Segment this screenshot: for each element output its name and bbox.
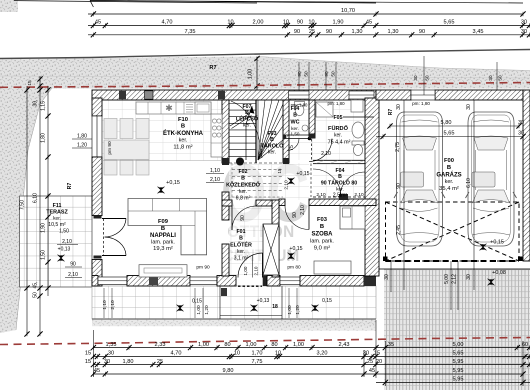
- svg-text:4,70: 4,70: [162, 20, 173, 26]
- svg-text:F00: F00: [444, 158, 454, 164]
- garage vertical ext line left: [403, 100, 405, 290]
- svg-text:F05: F05: [334, 115, 343, 121]
- kitchen level marker: [158, 187, 165, 194]
- szoba level marker: [288, 253, 295, 260]
- svg-text:30: 30: [518, 120, 524, 126]
- shaft bottom dark block: [265, 270, 273, 275]
- garage inner dim 5,80: [390, 125, 519, 127]
- top wall window WC: [289, 91, 310, 99]
- bath shower corner: [316, 102, 333, 117]
- svg-text:9,0 m²: 9,0 m²: [314, 246, 330, 252]
- svg-text:F11: F11: [53, 203, 62, 209]
- svg-text:ker.: ker.: [53, 216, 61, 222]
- svg-text:R7: R7: [67, 183, 73, 190]
- dining table: [104, 140, 149, 160]
- svg-text:ker.: ker.: [268, 150, 276, 156]
- svg-text:ker.: ker.: [237, 249, 245, 255]
- svg-text:35: 35: [388, 342, 394, 348]
- left dim chain inner: [47, 86, 49, 296]
- svg-text:2,10: 2,10: [300, 205, 306, 215]
- staircase winder radial treads: [257, 100, 259, 160]
- dimension row 1 (10,70): [88, 13, 523, 15]
- svg-text:15: 15: [277, 168, 282, 173]
- svg-text:45,: 45,: [33, 282, 39, 289]
- property boundary red dashed bottom: [0, 338, 530, 345]
- svg-text:1,00: 1,00: [243, 266, 248, 275]
- svg-text:ker.: ker.: [179, 138, 188, 144]
- svg-text:45: 45: [94, 368, 100, 374]
- svg-text:90: 90: [297, 71, 302, 77]
- svg-text:5,95: 5,95: [453, 377, 464, 383]
- svg-text:B: B: [447, 165, 451, 171]
- top wall post P2: [145, 91, 154, 99]
- svg-text:3,45: 3,45: [473, 29, 484, 35]
- svg-text:2,00: 2,00: [253, 20, 264, 26]
- svg-text:1,15: 1,15: [41, 101, 47, 111]
- watermark OTTHON: [227, 222, 294, 241]
- svg-text:30: 30: [466, 274, 472, 280]
- svg-text:R7: R7: [209, 65, 216, 71]
- house left exterior wall upper: [92, 98, 102, 116]
- svg-text:30,: 30,: [33, 100, 39, 107]
- terrace level marker: [58, 255, 65, 262]
- svg-text:5,00: 5,00: [444, 274, 450, 284]
- svg-text:90: 90: [297, 20, 303, 26]
- szoba top wall stub left: [279, 199, 285, 206]
- svg-text:pm 90: pm 90: [107, 141, 113, 155]
- door post: [263, 276, 269, 287]
- dining chairs top row: [104, 119, 117, 139]
- left dim chain mid: [39, 76, 41, 334]
- svg-text:5,95: 5,95: [453, 368, 464, 374]
- svg-text:30: 30: [384, 274, 390, 280]
- svg-text:R7: R7: [388, 109, 394, 116]
- svg-text:2,10: 2,10: [110, 300, 116, 310]
- garage door corner stub left: [383, 257, 388, 262]
- svg-text:1,00: 1,00: [248, 69, 254, 80]
- svg-text:5,00: 5,00: [453, 342, 464, 348]
- bottom dim row E garage: [376, 382, 530, 384]
- storage door arc right: [340, 172, 365, 197]
- svg-text:+0,13: +0,13: [58, 247, 71, 253]
- dining chairs bottom row: [104, 160, 117, 175]
- car 1 in garage: [394, 112, 445, 246]
- svg-text:pm: 1,80: pm: 1,80: [327, 101, 345, 106]
- svg-text:B: B: [270, 137, 274, 143]
- wall eloter-szoba vertical: [272, 200, 279, 277]
- svg-text:15: 15: [27, 80, 33, 86]
- dimension row 3 (7,35 ...): [88, 34, 530, 36]
- wall kozlekedo-eloter: [222, 200, 232, 206]
- svg-text:+0,15: +0,15: [289, 246, 302, 252]
- kitchen floor faint tiles: [102, 100, 222, 161]
- svg-text:ker.: ker.: [334, 133, 342, 139]
- paving dim verticals: [103, 288, 105, 318]
- top wall window bath: [349, 91, 374, 99]
- svg-text:ker.: ker.: [445, 179, 454, 185]
- bottom wall pier 3: [300, 276, 364, 287]
- bath washing machine: [351, 100, 363, 112]
- top wall post 2: [218, 91, 225, 99]
- garage door heavy dashed line: [386, 260, 520, 262]
- svg-text:15: 15: [85, 351, 91, 357]
- svg-text:2,10: 2,10: [284, 180, 290, 190]
- svg-text:75: 75: [289, 145, 295, 151]
- svg-text:30: 30: [518, 131, 524, 137]
- svg-text:25: 25: [157, 359, 163, 365]
- entry threshold dashed: [238, 285, 262, 287]
- bottom dim row C: [93, 364, 530, 366]
- house bottom wall corner left: [92, 276, 98, 287]
- bottom window W2 szoba: [280, 277, 300, 285]
- wall nappali-eloter mid: [222, 192, 229, 220]
- svg-text:+0,08: +0,08: [492, 270, 506, 276]
- svg-text:20: 20: [376, 359, 382, 365]
- svg-text:F10: F10: [178, 117, 188, 123]
- svg-text:50: 50: [331, 71, 336, 77]
- svg-text:5,65: 5,65: [444, 131, 455, 137]
- svg-text:B: B: [181, 124, 185, 130]
- storage left edge dashed: [310, 164, 312, 198]
- svg-text:+0,15: +0,15: [166, 180, 180, 186]
- wall end caps dark: [222, 158, 229, 165]
- svg-text:2,45: 2,45: [396, 225, 402, 235]
- svg-text:15: 15: [85, 359, 91, 365]
- bath sink: [352, 122, 364, 138]
- svg-text:B: B: [239, 236, 243, 242]
- svg-text:+0,15: +0,15: [296, 171, 309, 177]
- desk: [314, 261, 351, 274]
- house left exterior wall middle: [92, 157, 102, 216]
- svg-text:90: 90: [326, 29, 332, 35]
- house right / garage party wall: [365, 98, 379, 276]
- svg-text:F01: F01: [237, 229, 246, 235]
- svg-text:pm 90: pm 90: [196, 265, 210, 271]
- svg-text:GARÁZS: GARÁZS: [436, 172, 461, 179]
- svg-text:10: 10: [275, 351, 281, 357]
- staircase cut line: [230, 113, 252, 129]
- storage center door post: [339, 194, 348, 200]
- svg-text:0,15: 0,15: [192, 299, 202, 305]
- bottom chain verticals: [384, 341, 386, 386]
- dim 1,00 street to house: [256, 57, 258, 90]
- bottom wall dark corner pier: [364, 276, 376, 287]
- bottom wall pier 2: [217, 276, 236, 287]
- svg-text:90: 90: [324, 71, 329, 77]
- wall nappali-eloter lower: [222, 244, 229, 276]
- bottom wall pier with post: [127, 276, 190, 287]
- svg-text:75 4,4 m²: 75 4,4 m²: [328, 140, 351, 146]
- svg-text:25: 25: [367, 359, 373, 365]
- svg-text:19,3 m²: 19,3 m²: [153, 246, 173, 252]
- driveway level marker +0,08: [488, 279, 495, 286]
- kitchen window left wall: [92, 116, 102, 157]
- svg-text:15: 15: [374, 351, 380, 357]
- svg-text:3,1 m²: 3,1 m²: [234, 256, 249, 262]
- wc sink: [302, 125, 308, 131]
- house left exterior wall lower: [92, 260, 102, 287]
- bath door leaf dashed and arc: [311, 139, 313, 160]
- svg-text:1,35: 1,35: [106, 342, 117, 348]
- svg-text:1,20: 1,20: [204, 305, 210, 315]
- svg-text:ker.: ker.: [243, 123, 251, 129]
- svg-text:B: B: [320, 224, 324, 230]
- corner texture patch top-left: [0, 0, 18, 12]
- svg-text:90 TÁROLÓ 80: 90 TÁROLÓ 80: [321, 179, 357, 187]
- svg-text:B: B: [161, 226, 165, 232]
- svg-text:1,50: 1,50: [59, 229, 69, 235]
- garage apron dashed rectangle with cross: [386, 202, 520, 261]
- svg-text:10,70: 10,70: [341, 8, 355, 14]
- svg-text:1,80: 1,80: [41, 133, 47, 143]
- street faint lane line: [0, 76, 530, 78]
- svg-text:2,12: 2,12: [452, 274, 458, 284]
- svg-text:1,30: 1,30: [388, 29, 399, 35]
- wc door arc: [287, 139, 299, 151]
- svg-text:30: 30: [108, 351, 114, 357]
- svg-text:7,75: 7,75: [252, 359, 263, 365]
- dimension row 2 (45 4,70 10 2,00 ...): [88, 25, 530, 27]
- svg-text:4,70: 4,70: [171, 351, 182, 357]
- svg-text:2,75: 2,75: [395, 142, 401, 152]
- wall wc-bath: [309, 100, 315, 138]
- svg-text:2,33: 2,33: [155, 342, 166, 348]
- bath toilet: [352, 141, 364, 145]
- svg-text:1,80: 1,80: [77, 134, 87, 140]
- watermark CENTRUM: [223, 246, 299, 265]
- svg-text:NAPPALI: NAPPALI: [150, 233, 176, 239]
- wc bath floor faint tiles: [288, 100, 364, 160]
- svg-text:+0,15: +0,15: [490, 240, 504, 246]
- storage threshold dashed: [313, 196, 365, 198]
- kitchen counter right with hob: [211, 114, 222, 157]
- svg-text:B: B: [293, 113, 297, 119]
- corridor floor faint tiles: [229, 163, 309, 200]
- neighbour parcel texture left side: [0, 88, 52, 333]
- entry porch lines: [219, 286, 221, 319]
- terrace double door leaves and arcs: [102, 218, 126, 220]
- svg-text:2,10: 2,10: [68, 272, 78, 278]
- watermark OC logo: [221, 148, 310, 240]
- garage level marker +0,15: [480, 244, 487, 251]
- svg-text:7,35: 7,35: [185, 29, 196, 35]
- svg-text:50: 50: [425, 75, 430, 81]
- svg-text:lam. park.: lam. park.: [310, 239, 334, 245]
- svg-text:+0,13: +0,13: [257, 298, 270, 304]
- svg-text:80: 80: [271, 342, 277, 348]
- paving band in front of house: [92, 286, 376, 319]
- svg-text:F03: F03: [317, 217, 328, 223]
- svg-text:lam. park.: lam. park.: [151, 240, 175, 246]
- svg-text:10: 10: [234, 351, 240, 357]
- porch step line: [220, 315, 282, 317]
- svg-text:5,95: 5,95: [453, 359, 464, 365]
- svg-text:6,8 m²: 6,8 m²: [236, 196, 251, 202]
- staircase winder curve: [231, 101, 262, 158]
- house exterior top wall: [92, 90, 376, 100]
- svg-text:TÁROLÓ: TÁROLÓ: [261, 142, 284, 150]
- svg-text:1,00: 1,00: [287, 305, 293, 315]
- svg-text:30: 30: [521, 29, 527, 35]
- property boundary red dashed top: [0, 83, 530, 88]
- sofa L-shaped: [128, 199, 207, 255]
- svg-text:90: 90: [419, 29, 425, 35]
- left dim chain 7,50: [26, 86, 28, 334]
- garage vertical ext line right: [473, 100, 475, 290]
- svg-text:2,10: 2,10: [210, 177, 220, 183]
- svg-text:1,20: 1,20: [295, 305, 301, 315]
- paving band bottom edge: [92, 318, 376, 320]
- svg-text:30: 30: [413, 75, 418, 81]
- svg-text:90: 90: [292, 212, 298, 218]
- svg-text:90: 90: [70, 262, 76, 268]
- svg-text:11,8 m²: 11,8 m²: [173, 145, 192, 151]
- top wall post 1: [119, 91, 126, 99]
- garage right wall: [523, 90, 530, 261]
- duct shaft crossed: [263, 224, 279, 275]
- corridor level marker: [288, 178, 295, 185]
- svg-text:2,43: 2,43: [339, 342, 350, 348]
- svg-text:pm 80: pm 80: [287, 265, 301, 271]
- svg-text:1,50: 1,50: [291, 132, 300, 137]
- svg-text:5,65: 5,65: [444, 20, 455, 26]
- svg-text:B: B: [245, 110, 249, 116]
- svg-text:B: B: [241, 176, 245, 182]
- svg-text:1,30: 1,30: [352, 29, 363, 35]
- svg-text:30: 30: [521, 20, 527, 26]
- svg-text:30: 30: [396, 104, 402, 110]
- svg-text:30: 30: [488, 75, 493, 81]
- under-stair storage dashed treads: [232, 169, 283, 171]
- svg-text:35,4 m²: 35,4 m²: [439, 186, 459, 192]
- svg-text:SZOBA: SZOBA: [312, 232, 334, 238]
- svg-text:ELŐTÉR: ELŐTÉR: [230, 241, 252, 249]
- staircase walk line with arrow: [246, 106, 252, 160]
- svg-text:2,10: 2,10: [354, 192, 364, 198]
- svg-text:1,10: 1,10: [210, 168, 220, 174]
- svg-text:30: 30: [104, 359, 110, 365]
- kitchen counter top: [136, 102, 211, 114]
- svg-text:F09: F09: [158, 219, 169, 225]
- wall kitchen-stairs upper: [222, 100, 229, 163]
- garage inner dim 5,65: [376, 136, 523, 138]
- staircase center divider: [255, 100, 257, 163]
- svg-text:5,80: 5,80: [441, 120, 452, 126]
- svg-text:pm: 1,80: pm: 1,80: [412, 101, 430, 106]
- staircase boundary dashed to corridor: [229, 162, 283, 164]
- svg-text:LÉPCSŐ: LÉPCSŐ: [236, 115, 258, 123]
- bed: [340, 206, 365, 229]
- street pavement band (stippled): [0, 57, 530, 89]
- svg-text:WC: WC: [291, 120, 300, 126]
- svg-text:2,10: 2,10: [321, 151, 331, 157]
- svg-text:5,65: 5,65: [453, 351, 464, 357]
- svg-text:10: 10: [283, 20, 289, 26]
- svg-text:3,20: 3,20: [317, 351, 328, 357]
- svg-text:KÖZLEKEDŐ: KÖZLEKEDŐ: [226, 182, 260, 189]
- svg-text:ker.: ker.: [239, 189, 247, 195]
- kitchen fridge: [195, 102, 211, 114]
- terrace double door dashed closed leaf: [103, 219, 105, 256]
- svg-text:45: 45: [369, 368, 375, 374]
- entry step dark block: [221, 288, 227, 296]
- label F05 leader line: [343, 116, 374, 118]
- svg-text:2,10: 2,10: [62, 239, 72, 245]
- svg-text:6,10: 6,10: [466, 178, 472, 188]
- svg-text:6,10: 6,10: [33, 193, 39, 203]
- staircase F07 treads left flight: [229, 103, 256, 105]
- eloter door from corridor arc: [232, 206, 256, 230]
- extension verticals top: [14, 1, 257, 3]
- svg-text:1,70: 1,70: [252, 351, 263, 357]
- eloter lower wall piece: [267, 276, 280, 287]
- paving shadow stipple: [92, 320, 376, 327]
- kitchen floor edge line: [102, 160, 222, 162]
- driveway top edge line: [376, 268, 530, 270]
- szoba door arc: [285, 206, 309, 230]
- svg-text:1,50: 1,50: [41, 250, 47, 260]
- svg-text:7,50: 7,50: [20, 200, 26, 210]
- kitchen stove: [186, 105, 193, 113]
- wc bottom wall thin: [283, 134, 309, 136]
- bath-storage divider thin band: [313, 159, 365, 161]
- svg-text:1,10: 1,10: [102, 300, 108, 310]
- bottom dim row B: [93, 356, 530, 358]
- apron dims 30 5,00 2,12 30: [390, 261, 392, 292]
- svg-text:50: 50: [304, 71, 309, 77]
- svg-text:F02: F02: [239, 169, 248, 175]
- svg-text:F04: F04: [291, 106, 300, 112]
- garage top wall: [376, 90, 411, 100]
- svg-text:FÜRDŐ: FÜRDŐ: [328, 125, 349, 132]
- driveway grid paving right: [384, 269, 530, 390]
- terrace double door jamb stubs: [94, 216, 102, 219]
- bottom window W0: [98, 277, 127, 285]
- svg-text:1,00: 1,00: [198, 342, 209, 348]
- svg-text:18: 18: [272, 304, 278, 310]
- neighbour parcel boundary line: [16, 88, 52, 330]
- bottom window W1: [190, 277, 217, 285]
- svg-text:90: 90: [396, 183, 402, 189]
- svg-text:45: 45: [95, 20, 101, 26]
- svg-text:1,00: 1,00: [246, 342, 257, 348]
- garage top window: [411, 90, 435, 100]
- stairs right wall: [283, 100, 289, 163]
- svg-text:45: 45: [366, 20, 372, 26]
- svg-text:50: 50: [33, 292, 39, 298]
- storage floor faint tiles: [313, 164, 365, 198]
- svg-text:0,15: 0,15: [322, 298, 332, 304]
- svg-text:TERASZ: TERASZ: [46, 210, 68, 216]
- svg-text:9,80: 9,80: [223, 368, 234, 374]
- szoba-taroló top wall: [309, 199, 376, 206]
- svg-text:10: 10: [227, 20, 233, 26]
- car 2 in garage: [466, 112, 517, 246]
- bottom dim row D: [93, 373, 523, 375]
- svg-text:80: 80: [224, 342, 230, 348]
- svg-text:1,00: 1,00: [293, 342, 304, 348]
- svg-text:50: 50: [498, 75, 503, 81]
- svg-text:1,20: 1,20: [77, 143, 87, 149]
- svg-text:1,00: 1,00: [196, 305, 202, 315]
- tv cabinet: [139, 265, 187, 277]
- wc toilet: [295, 102, 305, 106]
- garage door corner stub right: [518, 257, 523, 262]
- svg-text:2,10: 2,10: [254, 266, 259, 275]
- svg-text:25: 25: [309, 29, 315, 35]
- street top edge wavy line: [0, 50, 530, 59]
- svg-text:90: 90: [240, 215, 246, 221]
